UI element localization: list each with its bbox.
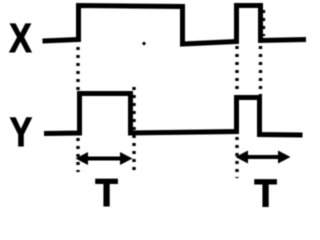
dotted guide line at second rising edge (upper part)	[235, 46, 238, 92]
dimension arrow for period T (right)	[236, 151, 291, 164]
svg-text:X: X	[9, 15, 31, 61]
dotted guide line at X first rising edge (upper part)	[76, 47, 79, 91]
wire: Y waveform trace	[44, 94, 303, 136]
wire: X waveform trace	[43, 6, 307, 45]
dotted guide line at X first rising edge (lower part)	[76, 138, 79, 172]
dotted guide line at second falling edge (upper part)	[262, 10, 265, 36]
label T (left period)	[95, 172, 118, 215]
svg-text:T: T	[95, 172, 118, 212]
dotted guide line at Y first falling edge	[132, 87, 135, 172]
svg-text:T: T	[254, 173, 277, 212]
label T (right period)	[254, 173, 277, 216]
dotted guide line at second falling edge (lower part)	[259, 46, 262, 95]
stray ink speck	[142, 42, 145, 45]
svg-text:Y: Y	[10, 109, 32, 155]
dimension arrow for period T (left)	[76, 152, 133, 165]
dotted guide line at second rising edge (lower part)	[235, 137, 238, 178]
signal label Y	[10, 109, 32, 155]
signal label X	[9, 15, 31, 61]
